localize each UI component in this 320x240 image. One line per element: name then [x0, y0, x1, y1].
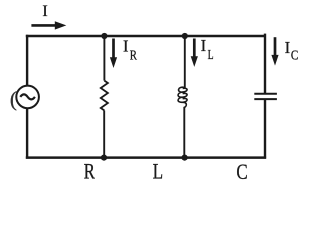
current arrow IR [110, 39, 117, 69]
resistor R zigzag [101, 81, 108, 111]
wire bottom horizontal [26, 156, 266, 159]
svg-text:L: L [153, 159, 164, 184]
capacitor C top plate [254, 93, 277, 95]
svg-text:I: I [201, 36, 207, 55]
svg-text:L: L [208, 48, 214, 63]
inductor L coil [178, 87, 187, 107]
wire right upper (capacitor top lead) [264, 34, 266, 93]
wire resistor top lead [103, 36, 105, 81]
current arrow I (top) [31, 21, 66, 29]
wire right lower (capacitor bottom lead) [264, 100, 266, 159]
svg-text:C: C [236, 159, 247, 184]
wire top horizontal [26, 35, 266, 38]
wire left upper (source top lead) [26, 35, 28, 85]
wire left lower (source bottom lead) [26, 109, 28, 159]
svg-text:R: R [130, 48, 138, 63]
capacitor C bottom plate [254, 98, 277, 100]
AC source V1 circle [16, 86, 39, 109]
node junction dot top of R branch [101, 33, 107, 39]
current arrow IC [271, 37, 278, 65]
node junction dot top of L branch [182, 33, 188, 39]
node junction dot bottom of R branch [101, 155, 107, 161]
node junction dot bottom of L branch [182, 155, 188, 161]
svg-text:(: ( [10, 87, 17, 111]
wire inductor top lead [184, 36, 186, 88]
svg-text:R: R [84, 159, 95, 184]
wire resistor bottom lead [103, 111, 105, 158]
current arrow IL [191, 39, 198, 67]
svg-text:I: I [285, 38, 291, 57]
svg-text:I: I [42, 3, 47, 20]
wire inductor bottom lead [183, 107, 185, 158]
svg-text:C: C [291, 48, 298, 63]
svg-text:I: I [123, 36, 129, 55]
AC source sine wave [20, 94, 35, 99]
